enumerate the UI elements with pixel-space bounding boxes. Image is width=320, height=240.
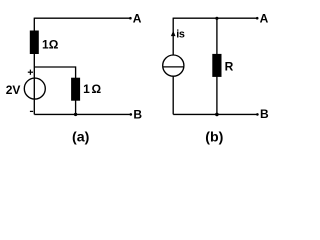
- voltage source V1 circle: [24, 78, 45, 99]
- node A terminal tick (a): [129, 17, 132, 20]
- junction dot top node (b): [215, 17, 218, 20]
- junction dot branch-2 / bottom wire: [74, 113, 77, 116]
- wire : circuit (b) top wire to terminal A: [173, 17, 257, 19]
- svg-text:B: B: [133, 107, 142, 121]
- node B terminal tick (a): [130, 113, 133, 116]
- svg-text:Ω: Ω: [49, 38, 59, 52]
- wire : circuit (b) left vertical wire above current source: [172, 18, 174, 56]
- wire : circuit (a) middle wire to branch 2: [34, 66, 75, 68]
- svg-text:1: 1: [83, 82, 90, 96]
- polarity minus sign: [30, 110, 33, 112]
- wire : circuit (a) top wire to terminal A: [34, 17, 130, 19]
- resistor R1 1ohm (filled body): [30, 31, 39, 55]
- node B terminal tick (b): [256, 113, 259, 116]
- svg-text:A: A: [260, 12, 269, 26]
- wire : circuit (b) bottom wire to terminal B: [173, 113, 257, 115]
- polarity plus sign: [28, 70, 33, 75]
- current source chord line: [163, 66, 184, 68]
- svg-text:B: B: [260, 107, 269, 121]
- wire : circuit (a) branch-2 vertical wire (behind R2): [75, 66, 77, 114]
- svg-text:Ω: Ω: [92, 82, 102, 96]
- junction dot bottom node (b): [215, 113, 219, 117]
- node A terminal tick (b): [256, 17, 259, 20]
- wire : circuit (b) left vertical wire below current source: [172, 76, 174, 114]
- svg-text:is: is: [176, 29, 185, 41]
- svg-text:(a): (a): [72, 130, 90, 146]
- wire : circuit (a) left vertical wire (passes behind R1 and through source circle): [33, 18, 35, 115]
- svg-text:A: A: [133, 12, 142, 26]
- svg-text:(b): (b): [205, 130, 223, 146]
- wire : circuit (b) resistor branch vertical (behind R): [216, 18, 218, 114]
- svg-text:2V: 2V: [6, 83, 21, 97]
- current source circle: [163, 55, 184, 76]
- svg-text:R: R: [225, 60, 234, 74]
- wire : circuit (a) bottom wire to terminal B: [34, 113, 130, 115]
- resistor R (filled body): [212, 54, 221, 77]
- resistor R2 1ohm (filled body): [71, 78, 80, 101]
- arrow of current is (points up): [171, 31, 176, 36]
